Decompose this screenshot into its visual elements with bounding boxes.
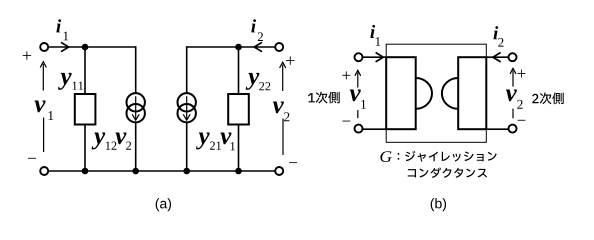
polarity + port1 bbox=[23, 51, 31, 59]
polarity + b port2 bbox=[518, 70, 526, 78]
polarity − port2 bbox=[289, 161, 297, 164]
label i1 bbox=[56, 19, 61, 32]
current arrow b i2 bbox=[493, 53, 501, 62]
node: top of y22 branch bbox=[235, 44, 242, 51]
controlled current source y21v1 bbox=[178, 93, 196, 122]
label 1次側 bbox=[308, 92, 340, 104]
label G bbox=[380, 151, 391, 162]
label b i1 bbox=[370, 25, 375, 38]
wire: (a) top-right horizontal bbox=[187, 46, 275, 48]
gyrator right block bbox=[458, 57, 486, 129]
wire: y22 branch bottom bbox=[238, 124, 240, 171]
wire: b port2 bottom bbox=[486, 128, 508, 130]
label 2次側 bbox=[532, 92, 564, 104]
terminal: b port2 bottom bbox=[509, 125, 517, 133]
polarity − b port2 bbox=[518, 119, 526, 122]
resistor y11 bbox=[75, 94, 96, 125]
label コンダクタンス bbox=[408, 168, 487, 178]
wire: (a) left source top vertical bbox=[135, 46, 137, 94]
wire: (a) top-left horizontal bbox=[48, 46, 135, 48]
node: top of y11 branch bbox=[82, 44, 89, 51]
terminal: port1 bottom bbox=[40, 167, 48, 175]
resistor y22 bbox=[228, 94, 249, 125]
current arrow i1 bbox=[61, 42, 69, 51]
wire: y11 branch bottom bbox=[84, 124, 86, 171]
wire: right source bottom vertical bbox=[186, 122, 188, 172]
current arrow b i1 bbox=[376, 53, 384, 62]
terminal: port2 top bbox=[275, 43, 283, 51]
wire: b port1 top bbox=[363, 56, 387, 58]
label v1 bbox=[35, 101, 46, 113]
wire: (a) right source top vertical bbox=[186, 46, 188, 94]
caption (a) bbox=[156, 198, 171, 211]
label b v2 bbox=[506, 90, 517, 102]
gyrator left semicircle bbox=[416, 78, 432, 109]
terminal: b port2 top bbox=[509, 53, 517, 61]
terminal: b port1 bottom bbox=[355, 125, 363, 133]
polarity − b port1 bbox=[342, 120, 350, 123]
label y22 bbox=[246, 73, 260, 90]
voltage arrow v1 bbox=[40, 62, 46, 152]
node: bottom of y22 branch bbox=[235, 168, 242, 175]
label i2 bbox=[251, 19, 256, 32]
wire: left source bottom vertical bbox=[135, 122, 137, 172]
wire: y11 branch top bbox=[84, 47, 86, 95]
wire: b port1 bottom bbox=[363, 128, 387, 130]
gyrator right semicircle bbox=[442, 78, 458, 109]
node: bottom of left source bbox=[132, 168, 139, 175]
label b i2 bbox=[493, 26, 498, 39]
voltage arrow b v1 bbox=[355, 70, 361, 118]
voltage arrow v2 bbox=[280, 62, 286, 155]
polarity + port2 bbox=[286, 56, 294, 64]
terminal: port2 bottom bbox=[275, 167, 283, 175]
caption (b) bbox=[431, 198, 446, 211]
label y12 v2 bbox=[92, 133, 106, 150]
polarity + b port1 bbox=[342, 71, 350, 79]
wire: y22 branch top bbox=[238, 47, 240, 95]
label y21 v1 bbox=[196, 133, 210, 150]
label y11 bbox=[58, 73, 72, 90]
label ：ジャイレッション bbox=[398, 151, 497, 162]
node: bottom of y11 branch bbox=[82, 168, 89, 175]
label v2 bbox=[273, 102, 284, 114]
controlled current source y12v2 bbox=[127, 93, 145, 122]
terminal: b port1 top bbox=[355, 53, 363, 61]
polarity − port1 bbox=[28, 157, 36, 160]
terminal: port1 top bbox=[40, 43, 48, 51]
wire: b port2 top bbox=[486, 56, 508, 58]
node: bottom of right source bbox=[183, 168, 190, 175]
gyrator left block bbox=[386, 57, 416, 129]
current arrow i2 bbox=[254, 42, 262, 51]
gyrator outer box bbox=[386, 44, 486, 142]
label b v1 bbox=[350, 90, 361, 102]
wire: (a) bottom horizontal bbox=[48, 170, 275, 172]
voltage arrow b v2 bbox=[510, 68, 516, 118]
